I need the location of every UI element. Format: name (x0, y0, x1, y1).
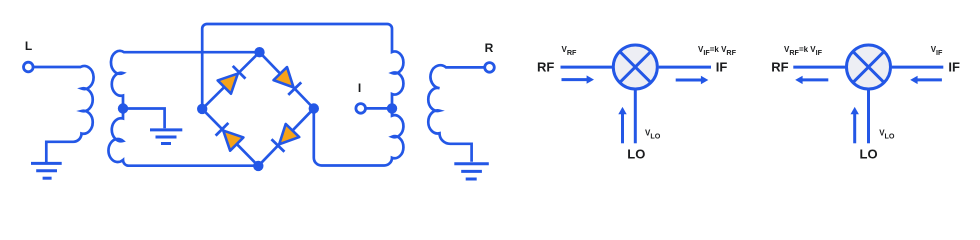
ground (right) (454, 164, 489, 179)
ground (center tap) (150, 130, 182, 144)
node diamond right (309, 103, 319, 113)
svg-text:LO: LO (860, 146, 878, 161)
terminal I (356, 104, 366, 114)
arrow IF right (676, 79, 702, 82)
svg-text:L: L (25, 39, 32, 53)
wire LO in (634, 90, 637, 144)
arrow RF left (802, 78, 828, 81)
node center tap T2 (387, 103, 397, 113)
ground (left) (31, 163, 62, 178)
svg-text:IF: IF (948, 59, 960, 74)
transformer T2 secondary winding (inductor) (428, 65, 485, 162)
wire I to center tap (365, 107, 392, 110)
node center tap T1 (118, 103, 128, 113)
diode D2 (upper-right, points to right node) (273, 67, 301, 95)
wire B-L (202, 109, 258, 166)
diode D4 (lower-left, points to left node) (215, 123, 243, 151)
wire LO in (867, 90, 870, 144)
node diamond bottom (253, 161, 263, 171)
arrow LO up (853, 114, 856, 143)
wire RF in (561, 66, 613, 69)
wire IF in (892, 66, 944, 69)
svg-text:RF: RF (537, 60, 554, 75)
diode D1 (upper-left, points to top node) (218, 66, 246, 94)
mixer U1 (613, 45, 657, 89)
terminal L (24, 62, 34, 72)
wire T-R (260, 52, 314, 108)
svg-text:IF: IF (716, 59, 728, 74)
wire + transformer T1 primary winding (inductor) (34, 66, 94, 163)
node diamond left (197, 104, 207, 114)
arrow LO up (621, 114, 624, 143)
svg-text:I: I (358, 81, 361, 95)
top rail: diamond left node up and over to T2 primary top (202, 24, 403, 109)
svg-text:RF: RF (771, 59, 788, 74)
arrow IF left (917, 78, 942, 81)
wire IF out (659, 66, 711, 69)
arrow RF right (562, 78, 588, 81)
mixer U2 (847, 45, 891, 89)
wire center tap to ground (126, 109, 165, 129)
wire L-T (202, 52, 259, 109)
node diamond top (254, 47, 264, 57)
svg-text:LO: LO (627, 146, 645, 161)
diode D3 (lower-right, points to bottom node) (271, 124, 299, 152)
transformer T1 secondary upper half + wire to diamond top node (111, 51, 260, 109)
transformer T1 secondary lower half + wire to diamond bottom node (108, 109, 258, 166)
terminal R (485, 63, 495, 73)
wire RF out (793, 66, 845, 69)
wire R-B (258, 109, 314, 166)
svg-text:R: R (485, 41, 494, 55)
bottom rail: diamond right node down and over to T2 primary bottom (314, 108, 404, 165)
